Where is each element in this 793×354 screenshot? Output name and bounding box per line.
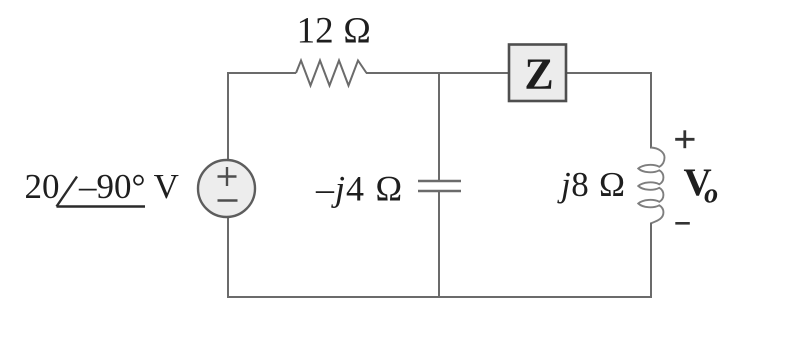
wire: right vertical lower (inductor to bottom wire) xyxy=(650,223,652,299)
voltage source minus sign xyxy=(218,199,238,201)
resistor R (12 ohm) zigzag xyxy=(296,61,367,86)
wire: right vertical upper (top wire to inductor) xyxy=(650,72,652,149)
wire: resistor to Z box (passes capacitor node) xyxy=(366,72,509,74)
wire: middle vertical lower (capacitor to bottom wire) xyxy=(438,191,440,297)
svg-text:Vo: Vo xyxy=(684,161,719,210)
wire: bottom horizontal xyxy=(227,296,652,298)
wire: top left horizontal from source branch to resistor xyxy=(228,72,296,74)
inductor L (j8 ohm) coil xyxy=(638,148,664,224)
capacitor C (-j4 ohm) plates xyxy=(418,180,461,182)
angle symbol slash xyxy=(57,177,78,207)
svg-text:–90° V: –90° V xyxy=(78,167,179,206)
svg-text:j8 Ω: j8 Ω xyxy=(557,165,626,204)
svg-text:–j4 Ω: –j4 Ω xyxy=(315,169,404,209)
voltage source plus sign xyxy=(218,175,237,177)
voltage source VS (20 ang -90 V) circle xyxy=(198,160,255,217)
wire: Z box to top-right corner xyxy=(566,72,651,74)
angle symbol underline xyxy=(57,205,146,207)
wire: left vertical lower (source bottom to bottom wire) xyxy=(227,218,229,298)
label minus (Vo polarity) xyxy=(675,222,690,225)
wire: middle vertical upper (node to capacitor) xyxy=(438,73,440,181)
svg-text:12 Ω: 12 Ω xyxy=(297,11,372,52)
impedance box Z xyxy=(509,45,566,102)
label plus (Vo polarity) xyxy=(675,130,694,148)
wire: left vertical upper (source top to top wire) xyxy=(227,72,229,160)
svg-text:Z: Z xyxy=(524,49,553,98)
svg-text:20: 20 xyxy=(25,167,60,206)
